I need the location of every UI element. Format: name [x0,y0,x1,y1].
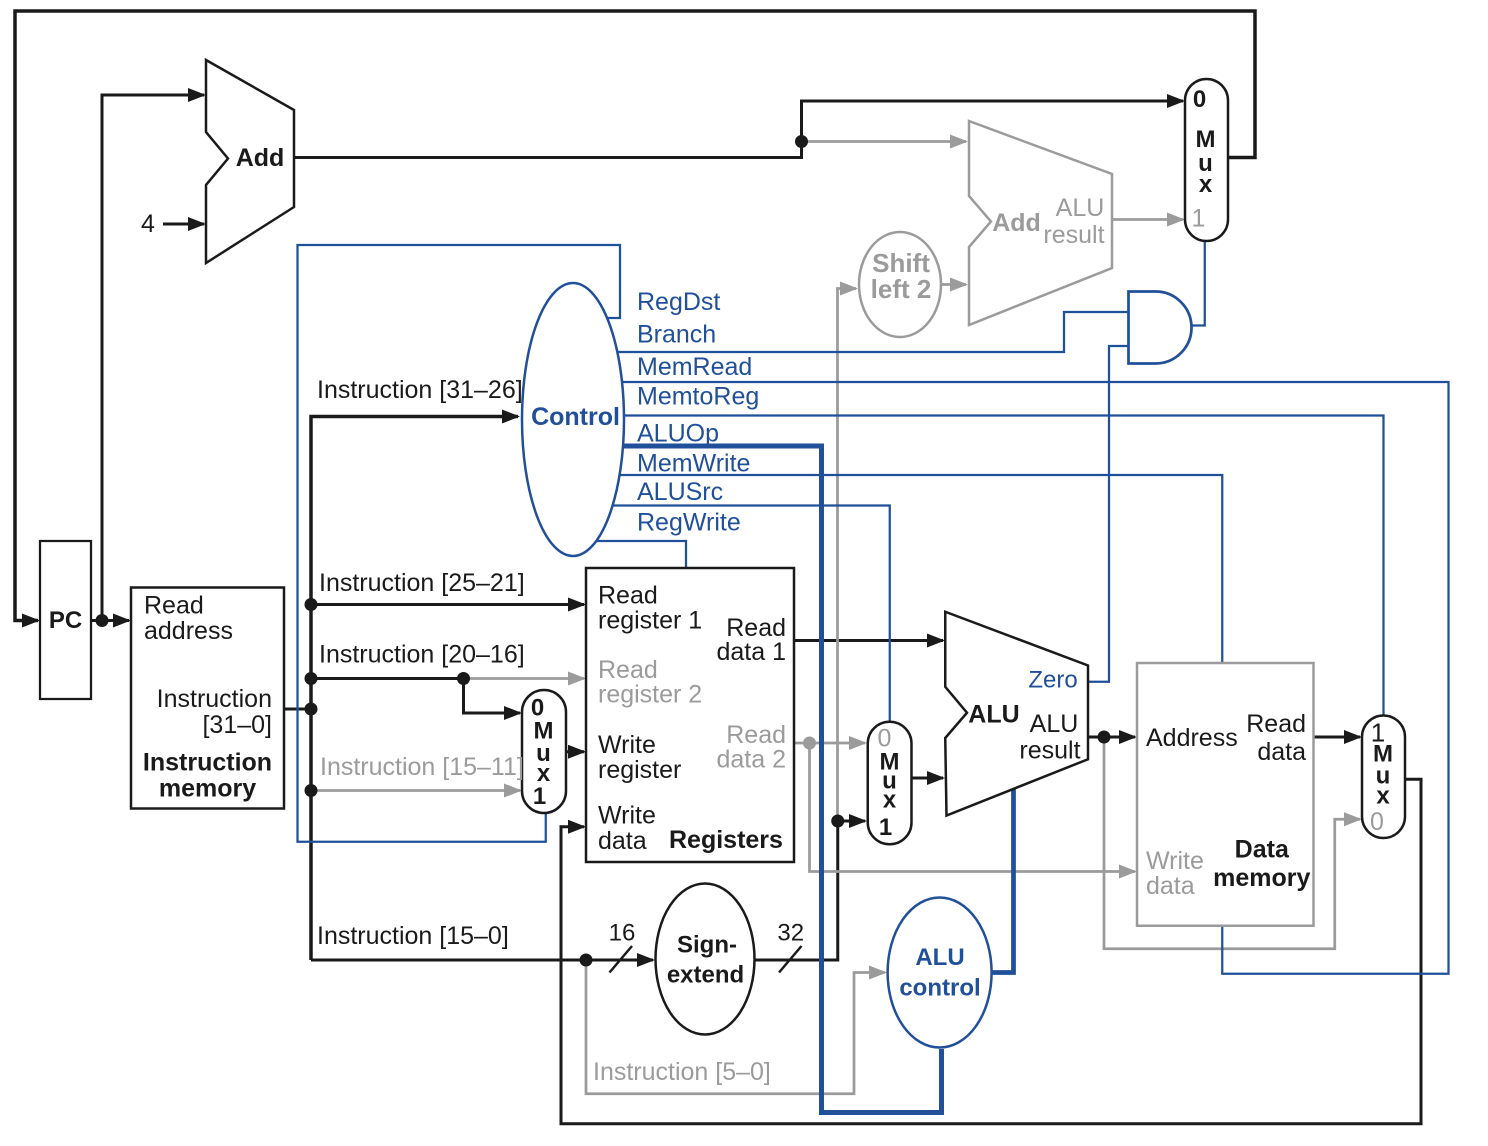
wire Read data 2 to Mux3 input 0 [794,742,865,745]
svg-text:register: register [598,756,681,784]
wire PC to Instruction memory Read address [91,619,129,622]
svg-text:Instruction [15–11]: Instruction [15–11] [320,753,524,781]
svg-text:ALU: ALU [1056,194,1105,222]
wire sign-extend branch riser up to Shift left 2 [838,289,857,822]
svg-text:Instruction: Instruction [157,685,272,713]
svg-text:register 2: register 2 [598,681,702,709]
svg-text:Add: Add [992,209,1041,237]
svg-text:ALUSrc: ALUSrc [637,478,723,506]
wire Instruction 15-11 to Mux2 input 1 [311,789,520,792]
svg-text:ALU: ALU [1030,710,1079,738]
node ALU result branch [1098,731,1111,744]
svg-text:Address: Address [1146,724,1238,752]
svg-text:extend: extend [667,962,744,989]
svg-text:Instruction [15–0]: Instruction [15–0] [317,922,509,950]
svg-text:Write: Write [598,731,656,759]
svg-text:data: data [598,827,647,855]
svg-text:memory: memory [1213,864,1310,892]
node Instruction 15-0 branch to Instruction 5-0 [580,954,593,967]
Mux3 (ALUSrc mux) [868,722,912,845]
svg-text:0: 0 [1370,808,1384,836]
node PC output junction [96,614,109,627]
svg-text:register 1: register 1 [598,607,702,635]
svg-text:Read: Read [598,582,658,610]
wire ALU result to Data memory Address [1088,736,1135,739]
svg-text:Read: Read [144,592,204,620]
svg-text:16: 16 [609,920,636,947]
wire Add output to Mux top-right input 0 [294,101,1183,158]
svg-text:Instruction [25–21]: Instruction [25–21] [319,569,525,597]
node Instruction 20-16 branch to Mux2 [457,672,470,685]
wire junction down to Mux2 input 0 [464,679,521,714]
svg-text:Data: Data [1235,836,1290,864]
svg-text:data: data [1257,738,1306,766]
Shift left 2 ellipse [859,232,941,337]
svg-text:Write: Write [1146,847,1204,875]
svg-text:MemRead: MemRead [637,353,752,381]
wire Read data 2 branch to Data memory Write data [810,743,1136,872]
svg-text:x: x [1376,783,1390,810]
wire Data memory Read data to Mux4 input 1 [1314,736,1361,739]
wire instruction bus vertical with Instruction 31-26 into Control [311,417,518,961]
wire Shift left 2 output to Add2 lower input [941,283,966,286]
wire Branch from Control to AND gate upper input [616,312,1129,352]
wire ALUOp thick from Control to ALU control [622,446,942,1113]
Instruction memory box [131,588,284,809]
wire Instruction 25-21 to Read register 1 [311,603,584,606]
svg-text:Sign-: Sign- [677,932,737,959]
ALU control ellipse [888,898,992,1048]
wire Mux2 output to Write register [566,750,584,753]
wire PC-loop: Mux top-right output around page top into PC [15,11,1255,621]
wire Mux4 output along bottom back to Registers Write data [561,779,1421,1124]
wire PC riser to Add top input [102,95,204,621]
svg-text:address: address [144,617,233,645]
svg-text:Instruction [20–16]: Instruction [20–16] [319,641,525,669]
node Read data 2 branch (gray) [803,737,816,750]
wire Zero from ALU to AND gate lower input [1088,346,1129,682]
svg-text:MemtoReg: MemtoReg [637,383,759,411]
wire Instruction 5-0 to ALU control [586,960,885,1094]
svg-text:Instruction: Instruction [143,749,272,777]
wire junction to Add2 top input [802,140,967,143]
wire Sign-extend output up to Mux3 input 1 [754,821,865,960]
wire RegWrite from Control to Registers top [596,541,686,568]
Add2 branch adder (gray) [969,121,1112,325]
svg-text:data 1: data 1 [716,638,786,666]
wire Add2 ALU result to Mux top-right input 1 [1112,218,1183,221]
Mux1 top-right (PCSrc mux) [1185,79,1228,241]
wire MemWrite from Control to Data memory top [619,475,1222,663]
Registers box [586,568,794,862]
wire RegDst from Control top around left down to Mux2 select [298,245,621,842]
wire AND gate output to Mux1 select [1191,241,1205,326]
svg-text:Registers: Registers [669,826,783,854]
node bus tap Instruction 25-21 [305,598,318,611]
svg-text:data 2: data 2 [716,746,786,774]
node bus tap Instruction 20-16 [305,672,318,685]
svg-text:Branch: Branch [637,321,716,349]
slash 16-bit width mark [610,946,633,973]
svg-text:[31–0]: [31–0] [202,711,272,739]
node sign-extend output branch [831,815,844,828]
svg-text:1: 1 [879,814,892,841]
svg-text:Control: Control [531,403,620,431]
node PC+4 junction to Add2 [795,135,808,148]
svg-text:1: 1 [533,783,546,810]
wire Mux3 output to ALU input [912,777,944,780]
svg-text:control: control [899,975,980,1002]
svg-text:x: x [1199,171,1213,198]
svg-text:result: result [1019,737,1080,765]
svg-text:ALU: ALU [915,944,964,971]
svg-text:Write: Write [598,802,656,830]
wire MemRead from Control to Data memory bottom [622,382,1449,974]
svg-text:left 2: left 2 [871,274,932,304]
wire MemtoReg from Control to Mux4 select [624,416,1384,716]
svg-text:memory: memory [159,775,256,803]
svg-text:x: x [883,787,897,814]
wire ALU control output thick to ALU bottom [992,789,1014,973]
svg-text:RegDst: RegDst [637,288,720,316]
svg-text:Instruction [31–26]: Instruction [31–26] [317,376,523,404]
wire Instruction 20-16 gray continuation to Read register 2 [464,677,585,680]
svg-text:Zero: Zero [1028,667,1077,694]
svg-text:ALUOp: ALUOp [637,420,719,448]
wire Read data 1 to ALU input [794,639,943,642]
svg-text:4: 4 [141,210,155,238]
Add adder (PC+4) [206,60,294,263]
svg-text:PC: PC [49,607,82,634]
svg-text:Instruction [5–0]: Instruction [5–0] [593,1058,771,1086]
svg-text:RegWrite: RegWrite [637,509,741,537]
wire ALU result branch to Mux4 input 0 [1104,737,1360,949]
wire Instruction 15-0 to Sign-extend [311,959,653,962]
AND gate (branch AND zero) [1129,292,1192,364]
svg-text:Add: Add [236,144,285,172]
svg-text:result: result [1043,221,1104,249]
Data memory box [1137,663,1314,926]
Mux2 (RegDst mux) [522,690,566,813]
node bus input from Instruction memory [305,703,318,716]
slash 32-bit width mark [779,946,802,973]
svg-text:ALU: ALU [968,701,1019,729]
PC register box [40,541,91,699]
main ALU [945,612,1088,816]
svg-text:Read: Read [1246,710,1306,738]
Sign-extend ellipse [656,884,755,1035]
svg-text:32: 32 [777,920,804,947]
svg-text:0: 0 [1193,86,1206,113]
wire Instruction 20-16 to junction [311,677,464,680]
svg-text:MemWrite: MemWrite [637,450,750,478]
wire ALUSrc from Control to Mux3 select [612,506,890,723]
wire Instruction memory output to bus [284,708,311,711]
Control unit ellipse [522,283,624,556]
svg-text:M: M [1196,126,1216,153]
node bus tap Instruction 15-11 [305,784,318,797]
Mux4 (MemtoReg mux) [1362,716,1405,839]
svg-text:1: 1 [1192,205,1206,233]
wire constant 4 into Add [163,223,204,226]
svg-text:data: data [1146,872,1195,900]
